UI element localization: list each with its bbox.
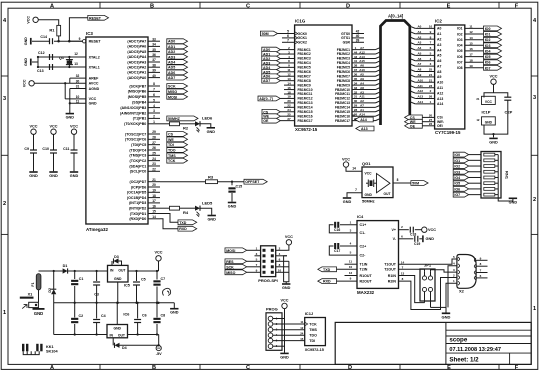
title block divider xyxy=(445,322,447,364)
connector pin square xyxy=(263,271,266,274)
svg-text:C2-: C2- xyxy=(360,253,367,257)
wire xyxy=(247,260,250,262)
net flag IO2 xyxy=(484,37,502,42)
junction xyxy=(58,40,60,42)
svg-text:A2: A2 xyxy=(418,35,422,39)
net flag IO3 xyxy=(484,43,502,48)
wire xyxy=(148,186,160,188)
net flag AD1 xyxy=(167,44,188,49)
net flag AD3 xyxy=(167,54,188,59)
wire from address bus xyxy=(415,92,434,94)
svg-text:R1IN: R1IN xyxy=(388,274,397,278)
wire from address bus xyxy=(415,54,434,56)
svg-text:GND: GND xyxy=(365,193,373,197)
net flag SCK xyxy=(225,264,247,269)
wire xyxy=(128,334,159,336)
net flag MISO xyxy=(167,89,188,94)
wire xyxy=(424,271,426,276)
svg-text:FB2MC9: FB2MC9 xyxy=(337,83,350,87)
svg-text:12: 12 xyxy=(469,30,473,34)
wire xyxy=(493,134,495,137)
wire xyxy=(284,53,295,55)
wire xyxy=(284,115,295,117)
wire to address bus xyxy=(352,115,376,117)
svg-text:FB1MC7: FB1MC7 xyxy=(298,74,311,78)
wire xyxy=(255,255,261,257)
wire to address bus xyxy=(352,120,376,122)
wire xyxy=(148,45,160,47)
svg-text:34: 34 xyxy=(152,43,156,47)
svg-text:FB1MC8: FB1MC8 xyxy=(298,79,311,83)
wire from address bus xyxy=(415,44,434,46)
svg-text:F: F xyxy=(515,3,519,9)
svg-text:A: A xyxy=(50,3,54,9)
svg-text:AVCC: AVCC xyxy=(89,82,99,86)
wire from address bus xyxy=(415,87,434,89)
svg-text:GTS1: GTS1 xyxy=(341,36,350,40)
svg-text:A5: A5 xyxy=(418,51,422,55)
svg-text:(ADC5)PA5: (ADC5)PA5 xyxy=(127,50,146,54)
junction xyxy=(116,302,118,304)
resistor R1 xyxy=(57,25,61,36)
wire xyxy=(247,266,250,268)
svg-text:C19: C19 xyxy=(414,242,420,246)
capacitor C17 xyxy=(334,243,336,249)
junction xyxy=(37,66,39,68)
svg-text:GND: GND xyxy=(24,58,28,66)
svg-text:Sheet: 1/2: Sheet: 1/2 xyxy=(449,356,479,363)
wire xyxy=(284,84,295,86)
wire xyxy=(284,80,295,82)
wire xyxy=(33,153,35,171)
wire from address bus xyxy=(415,27,434,29)
svg-text:FB2MC11: FB2MC11 xyxy=(335,92,350,96)
svg-text:A2: A2 xyxy=(437,37,441,41)
svg-text:AREF: AREF xyxy=(89,76,100,80)
svg-text:OUT: OUT xyxy=(118,334,126,338)
wire xyxy=(156,303,158,318)
svg-text:FB1MC5: FB1MC5 xyxy=(298,66,311,70)
title block rows xyxy=(446,329,531,331)
wire xyxy=(422,116,427,118)
wire xyxy=(465,56,484,58)
svg-text:14: 14 xyxy=(287,81,291,85)
svg-text:50MHZ: 50MHZ xyxy=(168,117,181,121)
wire xyxy=(280,66,284,68)
svg-text:A13: A13 xyxy=(361,127,368,131)
svg-text:F: F xyxy=(515,365,519,371)
wire xyxy=(345,263,358,265)
wire JP1 to X2 pin3 xyxy=(431,270,458,272)
svg-text:VCC: VCC xyxy=(49,125,57,129)
svg-text:LED6: LED6 xyxy=(202,116,213,121)
svg-text:16: 16 xyxy=(152,204,156,208)
wire xyxy=(465,39,484,41)
svg-text:31: 31 xyxy=(76,85,80,89)
wire xyxy=(276,249,287,251)
wire from address bus xyxy=(415,38,434,40)
supply VCC at C10 xyxy=(51,129,56,134)
svg-text:E: E xyxy=(447,3,451,9)
power pin box IC1P GND xyxy=(482,117,496,125)
net flag RXD xyxy=(178,226,197,231)
junction xyxy=(68,40,70,42)
capacitor C2 xyxy=(71,318,78,320)
wire xyxy=(160,219,178,229)
net flag AD2 xyxy=(262,56,281,61)
svg-text:A0: A0 xyxy=(418,25,422,29)
svg-text:24: 24 xyxy=(429,73,433,77)
svg-text:A14: A14 xyxy=(360,118,367,122)
svg-text:32: 32 xyxy=(76,74,80,78)
crystal Q1 xyxy=(68,57,70,67)
net flag RESET xyxy=(88,15,109,20)
connector pin circle xyxy=(268,327,273,332)
svg-text:44: 44 xyxy=(354,50,358,54)
wire to RESET flag xyxy=(69,18,87,41)
svg-text:X1: X1 xyxy=(28,292,33,296)
svg-text:A9: A9 xyxy=(418,73,422,77)
net flag IO5 xyxy=(484,54,502,59)
junction xyxy=(74,302,76,304)
svg-text:AD5: AD5 xyxy=(168,66,175,70)
ground sideways at crystal xyxy=(30,59,32,66)
svg-text:XTAL1: XTAL1 xyxy=(89,65,100,69)
svg-text:FB2MC10: FB2MC10 xyxy=(335,88,350,92)
svg-text:AD4: AD4 xyxy=(168,61,175,65)
svg-text:A13: A13 xyxy=(418,95,424,99)
svg-text:IO6: IO6 xyxy=(485,61,491,65)
junction xyxy=(136,333,138,335)
wire xyxy=(70,102,86,104)
svg-text:C1: C1 xyxy=(79,277,84,281)
svg-text:36: 36 xyxy=(152,53,156,57)
clock mark xyxy=(295,41,298,45)
svg-text:50M: 50M xyxy=(262,32,269,36)
wire xyxy=(158,261,160,271)
wire xyxy=(112,338,114,346)
svg-text:31: 31 xyxy=(354,95,358,99)
connector pin square xyxy=(263,254,266,257)
svg-text:GCK0: GCK0 xyxy=(298,32,308,36)
wire xyxy=(415,229,422,231)
svg-text:(ADC7)PA7: (ADC7)PA7 xyxy=(127,40,146,44)
wire xyxy=(65,98,86,100)
svg-text:A0: A0 xyxy=(437,27,441,31)
svg-text:26: 26 xyxy=(152,146,156,150)
svg-text:Q1: Q1 xyxy=(59,56,64,60)
capacitor C12 xyxy=(49,54,51,60)
svg-text:IO3: IO3 xyxy=(485,44,491,48)
svg-text:37: 37 xyxy=(354,68,358,72)
wire xyxy=(469,182,481,184)
svg-text:25: 25 xyxy=(429,68,433,72)
connector pin cup xyxy=(474,271,476,275)
JTAG gate IC1J body xyxy=(305,318,326,346)
connector pin cup xyxy=(458,281,460,285)
capacitor C1 xyxy=(71,280,78,282)
svg-text:10: 10 xyxy=(76,95,80,99)
svg-text:RES: RES xyxy=(226,260,234,264)
wire xyxy=(469,171,481,173)
svg-text:26: 26 xyxy=(354,113,358,117)
svg-text:V+: V+ xyxy=(392,228,397,232)
svg-text:33: 33 xyxy=(152,37,156,41)
connector pin circle xyxy=(268,322,273,327)
wire xyxy=(484,93,508,98)
svg-text:AD1: AD1 xyxy=(168,45,175,49)
junction xyxy=(68,40,70,42)
net flag AD5 xyxy=(262,69,281,74)
svg-text:VCC: VCC xyxy=(428,228,436,232)
wire from address bus xyxy=(415,81,434,83)
jumper pin xyxy=(422,287,426,291)
svg-text:IO2: IO2 xyxy=(454,165,460,169)
wire xyxy=(284,62,295,64)
net flag MOSI xyxy=(225,248,247,253)
svg-text:GND: GND xyxy=(489,140,498,144)
wire xyxy=(284,89,295,91)
svg-text:AGND: AGND xyxy=(89,87,100,91)
wire xyxy=(276,260,287,262)
svg-text:(ADC0)PA0: (ADC0)PA0 xyxy=(127,76,146,80)
capacitor C6 xyxy=(134,319,141,321)
buffer triangle inside QG1 xyxy=(377,174,391,193)
fuse F1 xyxy=(36,274,41,290)
svg-text:(TDO)PC4: (TDO)PC4 xyxy=(129,148,146,152)
svg-text:33: 33 xyxy=(354,86,358,90)
svg-text:A9: A9 xyxy=(360,77,364,81)
svg-text:A12: A12 xyxy=(418,89,424,93)
svg-text:1: 1 xyxy=(153,120,155,124)
svg-text:TDO: TDO xyxy=(309,334,317,338)
svg-text:13: 13 xyxy=(74,62,78,66)
svg-text:11: 11 xyxy=(349,260,353,264)
svg-text:(SCK)PB7: (SCK)PB7 xyxy=(129,84,146,88)
svg-text:(INT0)PD2: (INT0)PD2 xyxy=(129,207,146,211)
svg-text:(ADC6)PA6: (ADC6)PA6 xyxy=(127,45,146,49)
svg-text:GND: GND xyxy=(509,200,518,204)
svg-text:16: 16 xyxy=(287,86,291,90)
svg-text:28: 28 xyxy=(354,108,358,112)
net flag TXD xyxy=(318,267,337,272)
net flag CS xyxy=(167,132,188,137)
wire xyxy=(427,125,435,127)
svg-text:R2: R2 xyxy=(183,125,189,130)
wire xyxy=(282,33,295,35)
svg-text:TDI: TDI xyxy=(309,339,315,343)
net flag TDI xyxy=(167,142,188,147)
svg-text:RXD: RXD xyxy=(179,227,187,231)
svg-text:GTS0: GTS0 xyxy=(341,32,350,36)
resistor RN1 element 3 xyxy=(484,165,495,168)
wire from address bus xyxy=(415,76,434,78)
svg-text:RXD: RXD xyxy=(323,280,331,284)
svg-text:11: 11 xyxy=(76,99,80,103)
svg-text:07.11.2008 13:29:47: 07.11.2008 13:29:47 xyxy=(449,347,501,353)
wire xyxy=(148,144,160,146)
wire xyxy=(33,134,35,150)
svg-text:GND: GND xyxy=(485,120,493,124)
capacitor C4 xyxy=(93,319,100,321)
svg-text:34: 34 xyxy=(354,81,358,85)
wire xyxy=(284,309,286,353)
svg-text:14: 14 xyxy=(152,215,156,219)
svg-text:GND: GND xyxy=(29,174,38,178)
svg-text:19: 19 xyxy=(287,95,291,99)
junction xyxy=(68,66,70,68)
net flag AD6 xyxy=(262,74,281,79)
svg-text:D4: D4 xyxy=(122,346,127,350)
oscillator QG1 body xyxy=(362,167,393,198)
wire xyxy=(284,111,295,113)
svg-text:A12: A12 xyxy=(359,50,365,54)
wire xyxy=(74,324,76,335)
svg-text:A13: A13 xyxy=(359,55,365,59)
svg-text:IC5: IC5 xyxy=(124,284,130,288)
svg-text:(SS)PB4: (SS)PB4 xyxy=(132,101,146,105)
svg-text:GND: GND xyxy=(282,286,291,290)
capacitor C2P xyxy=(504,96,511,98)
svg-text:(T1)PB1: (T1)PB1 xyxy=(133,117,147,121)
svg-text:GND: GND xyxy=(34,311,43,316)
svg-text:27: 27 xyxy=(287,117,291,121)
resistor R3 xyxy=(206,180,218,184)
svg-text:JP1: JP1 xyxy=(424,262,432,267)
wire grounds of PROG-SPI xyxy=(284,256,289,282)
svg-text:8: 8 xyxy=(397,178,399,182)
net flag AD7 xyxy=(262,78,281,83)
svg-text:VCC: VCC xyxy=(27,16,31,24)
svg-text:A3: A3 xyxy=(360,90,364,94)
wire xyxy=(231,182,233,186)
svg-text:FB1MC3: FB1MC3 xyxy=(298,57,311,61)
net flag AD1 xyxy=(262,52,281,57)
wire xyxy=(284,93,295,95)
wire xyxy=(173,303,175,308)
svg-text:(ADC2)PA2: (ADC2)PA2 xyxy=(127,66,146,70)
wire xyxy=(116,303,118,325)
wire xyxy=(32,61,38,63)
svg-text:MISO: MISO xyxy=(226,271,235,275)
wire xyxy=(427,121,435,123)
svg-text:17: 17 xyxy=(469,53,473,57)
clock mark xyxy=(295,36,298,40)
supply -5V output xyxy=(156,346,161,351)
wire xyxy=(38,290,40,303)
svg-text:B: B xyxy=(152,365,156,371)
svg-text:C8: C8 xyxy=(161,313,166,317)
wire xyxy=(273,323,305,325)
svg-text:24: 24 xyxy=(152,157,156,161)
svg-text:FB1MC6: FB1MC6 xyxy=(298,70,311,74)
svg-text:6: 6 xyxy=(287,34,289,38)
net flag A13 xyxy=(356,126,374,131)
connector pin cup xyxy=(458,257,460,261)
svg-text:A[0..14]: A[0..14] xyxy=(388,14,404,19)
wire from address bus xyxy=(415,97,434,99)
svg-text:OE: OE xyxy=(263,119,269,123)
svg-text:C11: C11 xyxy=(63,147,69,151)
svg-text:(OC1B)PD4: (OC1B)PD4 xyxy=(127,196,146,200)
wire xyxy=(148,90,160,92)
svg-text:IO5: IO5 xyxy=(457,49,463,53)
junction xyxy=(117,302,119,304)
junction xyxy=(492,133,494,135)
svg-text:WE: WE xyxy=(168,138,174,142)
supply VCC output xyxy=(156,256,161,261)
svg-text:GSR: GSR xyxy=(343,41,351,45)
svg-text:T2OUT: T2OUT xyxy=(384,268,397,272)
svg-text:AD[0..7]: AD[0..7] xyxy=(259,97,273,101)
wire xyxy=(96,303,98,319)
svg-text:13: 13 xyxy=(287,77,291,81)
svg-text:IN: IN xyxy=(110,269,114,273)
wire xyxy=(393,182,411,184)
svg-text:(AIN1/OC0)PB3: (AIN1/OC0)PB3 xyxy=(120,106,146,110)
svg-text:9: 9 xyxy=(79,37,81,41)
svg-text:A11: A11 xyxy=(418,84,424,88)
wire xyxy=(273,340,305,342)
capacitor C13 xyxy=(49,64,51,70)
svg-text:A10: A10 xyxy=(418,78,424,82)
svg-text:VCC: VCC xyxy=(285,235,293,239)
svg-text:22: 22 xyxy=(152,168,156,172)
wire to address bus xyxy=(352,71,376,73)
svg-text:15: 15 xyxy=(469,41,473,45)
svg-text:18: 18 xyxy=(469,58,473,62)
svg-text:18: 18 xyxy=(287,90,291,94)
svg-text:RESET: RESET xyxy=(89,40,102,44)
svg-text:GND: GND xyxy=(89,102,97,106)
svg-text:TXD: TXD xyxy=(323,268,331,272)
wire xyxy=(465,50,484,52)
svg-text:T2IN: T2IN xyxy=(360,268,368,272)
wire xyxy=(148,181,160,183)
wire to address bus xyxy=(352,93,376,95)
svg-text:11: 11 xyxy=(469,25,473,29)
wire xyxy=(148,61,160,63)
wire xyxy=(352,33,364,35)
wire xyxy=(250,260,261,262)
svg-text:A6: A6 xyxy=(360,64,364,68)
diode D2 xyxy=(51,289,56,294)
net flag AD4 xyxy=(167,60,188,65)
svg-text:GCK1: GCK1 xyxy=(298,36,308,40)
ground at PROG-SPI xyxy=(282,283,290,285)
svg-text:(TOSC1)PC6: (TOSC1)PC6 xyxy=(125,138,146,142)
svg-text:12: 12 xyxy=(74,52,78,56)
CPLD IC1G XC9572-15 body xyxy=(295,25,352,126)
wire xyxy=(148,56,160,58)
frame row ticks right xyxy=(531,75,538,77)
svg-text:TCK: TCK xyxy=(168,159,176,163)
wire xyxy=(148,133,160,135)
connector pin square xyxy=(271,265,274,268)
bus A[0..14] xyxy=(381,21,410,126)
svg-text:GND: GND xyxy=(280,355,289,359)
svg-text:FB2MC12: FB2MC12 xyxy=(335,97,350,101)
svg-text:A10: A10 xyxy=(359,68,365,72)
wire xyxy=(280,111,284,113)
junction xyxy=(74,333,76,335)
title block outline xyxy=(335,322,531,364)
svg-text:A14: A14 xyxy=(418,100,424,104)
svg-text:XC9572-15: XC9572-15 xyxy=(305,348,324,352)
svg-text:18: 18 xyxy=(152,194,156,198)
svg-text:VCC: VCC xyxy=(342,157,350,161)
wire to address bus xyxy=(352,75,376,77)
